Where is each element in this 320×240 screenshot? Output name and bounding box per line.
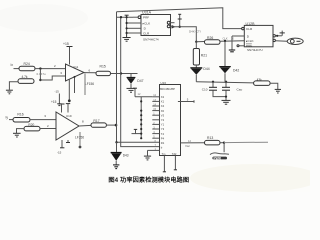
svg-text:Cao: Cao — [237, 87, 243, 91]
svg-text:Ix: Ix — [11, 63, 14, 67]
node junction dot B — [39, 79, 41, 81]
wire A: D44 node to resistor 43k — [196, 82, 253, 83]
U16 left pin stubs — [152, 97, 159, 138]
ground G7 — [144, 156, 151, 160]
svg-text:SN74HC74: SN74HC74 — [143, 37, 159, 41]
svg-text:CLR: CLR — [246, 27, 253, 31]
feedback stubs below U11 — [74, 76, 76, 78]
svg-text:D4K-CTI: D4K-CTI — [189, 30, 201, 34]
wire PRE row from v1 — [117, 16, 134, 18]
flip-flop U12B box — [244, 25, 273, 46]
resistor R13 — [205, 140, 221, 145]
wire R20 left lead to ground — [17, 129, 25, 133]
wire op-amp2 output — [79, 124, 91, 127]
svg-text:+15: +15 — [63, 42, 69, 46]
pin 5 stub with cap marks — [179, 14, 181, 27]
diode D47 — [127, 77, 136, 84]
svg-text:LF156: LF156 — [85, 82, 94, 86]
svg-text:CLK: CLK — [223, 37, 228, 41]
wire vertical v2 — [121, 17, 160, 146]
ground G3 — [229, 50, 235, 52]
svg-text:-15: -15 — [55, 90, 60, 94]
svg-text:43k: 43k — [257, 78, 263, 82]
wire R15 to D47 node — [111, 73, 138, 75]
IC U16 box — [160, 85, 181, 156]
wire Ix lead — [14, 68, 20, 70]
svg-text:▸CLK: ▸CLK — [246, 39, 255, 43]
svg-text:X4: X4 — [161, 104, 165, 108]
diode D44 — [195, 65, 197, 67]
node dot D42 tap — [224, 40, 226, 42]
ground G1 under column — [123, 33, 131, 41]
svg-text:Xtal: Xtal — [185, 144, 190, 148]
svg-text:V3: V3 — [161, 113, 165, 117]
U12B output Qbar — [273, 39, 275, 41]
diode D42 — [224, 41, 226, 66]
wire row1 with stub — [135, 96, 152, 98]
svg-text:Y3: Y3 — [161, 127, 165, 131]
svg-text:Y2: Y2 — [161, 118, 165, 122]
wire pin bus — [140, 97, 142, 138]
svg-text:R1: R1 — [161, 141, 165, 145]
U12B output Q — [273, 35, 275, 37]
wire 43k to ground — [270, 83, 278, 89]
svg-text:SN74HC7U: SN74HC7U — [247, 48, 263, 52]
connector oval B — [287, 38, 303, 44]
svg-text:R21: R21 — [201, 54, 207, 58]
svg-text:D43: D43 — [123, 154, 129, 158]
capacitor 0.047u vertical link — [39, 69, 41, 80]
net flag POWER — [223, 143, 225, 152]
svg-text:R13: R13 — [207, 136, 213, 140]
node dot on v1 — [115, 124, 118, 127]
wire R13 to right — [220, 142, 224, 144]
wire top bus to U12B — [117, 8, 242, 29]
wire Qbar to R26 junction — [170, 27, 196, 42]
wire 4.7k left lead to ground — [9, 82, 18, 90]
resistor R20 — [24, 126, 40, 130]
svg-text:CLR: CLR — [143, 31, 150, 35]
svg-text:图4 功率因素检测模块电路图: 图4 功率因素检测模块电路图 — [108, 176, 189, 184]
wire junction column — [126, 15, 128, 33]
svg-text:U19: U19 — [66, 114, 72, 118]
U16 right pin 12 XTAL to R13 — [181, 142, 205, 144]
svg-text:U11: U11 — [73, 65, 79, 69]
wire R24 to opamp pin2 — [35, 68, 66, 70]
svg-text:▸CLK: ▸CLK — [143, 21, 152, 25]
wire crystal stub on row 133.6 — [132, 133, 142, 135]
svg-text:P4: P4 — [161, 136, 165, 140]
wire D pin to ground stub — [232, 35, 244, 37]
svg-text:R17: R17 — [93, 119, 99, 123]
node dot v1 bottom — [115, 141, 117, 143]
wire vertical v1 — [117, 12, 160, 143]
svg-text:D42: D42 — [233, 69, 239, 73]
node dot on vertical v2 — [120, 72, 122, 74]
op-amp U19 — [56, 112, 79, 140]
svg-text:D44: D44 — [203, 67, 209, 71]
svg-text:C10: C10 — [202, 87, 208, 91]
flip-flop U31A box — [141, 15, 171, 36]
ground G5 — [6, 90, 13, 94]
node dot C11/D42 — [225, 81, 227, 83]
node dot v2 top — [120, 16, 122, 18]
svg-text:Td2: Td2 — [172, 152, 177, 156]
resistor 4.7k — [18, 79, 34, 84]
node junction R26/R21 — [195, 41, 197, 43]
svg-text:X2: X2 — [161, 95, 165, 99]
resistor R17 — [91, 123, 106, 127]
svg-text:X1: X1 — [161, 100, 165, 104]
capacitor C10 — [212, 82, 214, 87]
wire R26 to U12B CLK — [220, 40, 244, 42]
wire R17 to vertical v1 — [106, 124, 116, 126]
resistor R16 — [13, 118, 30, 123]
wire Iy lead — [9, 119, 13, 121]
power stub 2 above U19 — [67, 104, 69, 113]
node dots on column — [126, 16, 128, 18]
wire R20 to opamp2 pin2 — [40, 128, 57, 130]
svg-text:R15: R15 — [100, 64, 106, 68]
resistor R26 — [205, 40, 221, 44]
U16 left bottom pin with ground — [148, 149, 160, 151]
svg-text:0.047u: 0.047u — [37, 72, 47, 76]
svg-text:X0: X0 — [161, 109, 165, 113]
resistor 43k — [254, 81, 271, 86]
svg-text:+15: +15 — [51, 100, 57, 104]
svg-text:Iy: Iy — [6, 116, 9, 120]
wire +15 to opamp top — [69, 47, 71, 65]
wire op-amp output — [84, 72, 96, 74]
svg-text:U31A: U31A — [142, 10, 152, 14]
ground G2 under C11 — [222, 100, 231, 104]
wire junction B to opamp pin3 — [40, 76, 65, 80]
svg-text:Y1: Y1 — [161, 123, 165, 127]
svg-text:4.7k: 4.7k — [22, 75, 28, 79]
+5 tick on Q — [281, 31, 283, 36]
svg-text:R26: R26 — [207, 36, 213, 40]
svg-text:-15: -15 — [57, 150, 62, 154]
svg-text:T4: T4 — [161, 132, 165, 136]
stubs below U19 — [61, 140, 63, 148]
svg-text:R24: R24 — [24, 62, 30, 66]
ground G6 — [13, 133, 21, 137]
node junction dot A — [39, 67, 41, 69]
ground under D43 — [113, 165, 119, 169]
U16 pin name labels — [161, 95, 165, 149]
resistor R15 — [96, 71, 111, 75]
U16 right pin 5 — [178, 101, 194, 103]
U31A output Q bubble — [167, 21, 170, 24]
ground G4 under D47 — [127, 88, 136, 92]
arrowhead on Qbar wire — [172, 25, 176, 29]
svg-text:80C48C/8P: 80C48C/8P — [160, 87, 175, 91]
wire to R26 — [196, 41, 204, 43]
svg-text:PWR: PWR — [214, 156, 222, 160]
svg-text:12: 12 — [188, 139, 191, 143]
svg-text:R16: R16 — [17, 112, 23, 116]
svg-text:R20: R20 — [28, 123, 34, 127]
wire R16 to opamp2 pin3 — [30, 119, 56, 121]
diode D43 at v1 bottom — [116, 142, 118, 152]
U31A output Qbar bubble — [167, 25, 170, 28]
ground G8 — [275, 89, 281, 93]
resistor R21 (vertical) — [193, 49, 199, 66]
svg-text:U16: U16 — [161, 81, 167, 85]
svg-text:U12B: U12B — [246, 22, 256, 26]
op-amp U11 — [66, 64, 85, 81]
node dot C10 — [212, 81, 214, 83]
resistor R24 — [19, 66, 35, 71]
U16 pin number labels — [153, 94, 156, 147]
svg-text:PRF: PRF — [143, 16, 149, 20]
svg-text:D47: D47 — [137, 79, 143, 83]
capacitor C11 — [225, 82, 227, 87]
node dots on bus — [140, 100, 142, 102]
